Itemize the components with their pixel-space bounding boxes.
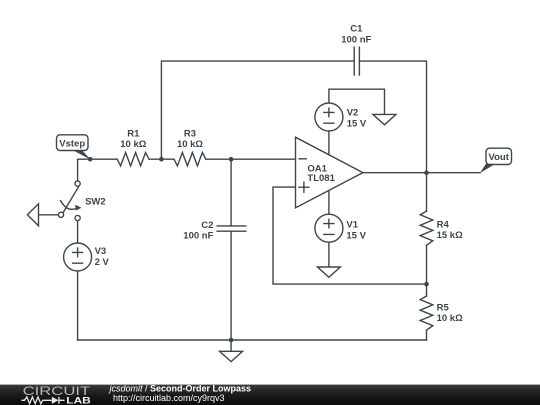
- node R1-R3 / C1 tap: [159, 157, 164, 162]
- svg-text:TL081: TL081: [307, 173, 335, 184]
- svg-text:2 V: 2 V: [95, 257, 110, 268]
- svg-text:http://circuitlab.com/cy9rqv3: http://circuitlab.com/cy9rqv3: [113, 393, 225, 403]
- ground near V2: [373, 114, 396, 124]
- node feedback divider: [424, 282, 429, 287]
- wire C2 bottom branch: [230, 231, 232, 340]
- source V3: [64, 243, 92, 271]
- wire R5 bottom to ground rail: [426, 330, 428, 340]
- wire V2 top loop to ground: [329, 89, 385, 114]
- ground left rotated: [27, 204, 38, 226]
- wire R1 to R3: [149, 158, 174, 160]
- svg-text:V1: V1: [346, 220, 358, 231]
- resistor R1: [117, 153, 149, 166]
- wire V3 bottom to rail: [77, 271, 79, 340]
- node ground rail: [229, 338, 234, 343]
- svg-text:C1: C1: [350, 23, 363, 34]
- svg-text:LAB: LAB: [66, 395, 91, 405]
- svg-text:15 V: 15 V: [347, 119, 367, 130]
- switch arrow head: [75, 205, 81, 211]
- svg-text:R3: R3: [184, 129, 196, 140]
- capacitor C1: [354, 47, 359, 75]
- svg-text:100 nF: 100 nF: [183, 230, 213, 241]
- wire C2 top branch: [230, 159, 232, 226]
- flag Vout: [480, 148, 512, 173]
- svg-text:15 kΩ: 15 kΩ: [437, 230, 463, 241]
- svg-text:C2: C2: [201, 220, 213, 231]
- ground bottom center: [230, 340, 232, 351]
- svg-text:R5: R5: [437, 303, 450, 314]
- svg-text:R1: R1: [127, 129, 140, 140]
- svg-text:Vstep: Vstep: [59, 138, 85, 149]
- node C2 tap: [229, 157, 234, 162]
- source V1: [315, 214, 343, 242]
- wire op-amp output to Vout: [363, 172, 480, 174]
- wire V2 bottom to op-amp: [328, 131, 330, 155]
- op-amp OA1: [296, 137, 363, 208]
- svg-text:SW2: SW2: [85, 197, 106, 208]
- wire R4 bottom to feedback node: [426, 245, 428, 296]
- flag Vstep: [57, 135, 91, 160]
- resistor R5: [420, 296, 433, 330]
- wire feedback from plus input down and across: [273, 187, 427, 284]
- logo CIRCUIT LAB: [22, 386, 91, 405]
- wire C1 top loop: [161, 61, 354, 159]
- capacitor C2: [217, 226, 246, 231]
- node Vstep tap: [88, 157, 93, 162]
- wire V1 bottom to ground: [328, 242, 330, 267]
- svg-text:V2: V2: [347, 108, 359, 119]
- node output: [424, 170, 429, 175]
- resistor R4: [420, 211, 433, 245]
- source V2: [315, 103, 343, 131]
- wire op-amp to V1 top: [328, 190, 330, 214]
- ground below V1: [317, 267, 340, 277]
- wire left ground to switch common: [39, 214, 59, 216]
- svg-text:10 kΩ: 10 kΩ: [177, 139, 203, 150]
- svg-text:100 nF: 100 nF: [341, 34, 371, 45]
- svg-text:10 kΩ: 10 kΩ: [437, 313, 463, 324]
- wire bottom ground rail: [78, 339, 427, 341]
- switch SW2: [63, 186, 79, 213]
- wire C1 right to right rail: [359, 61, 426, 211]
- resistor R3: [174, 153, 206, 166]
- junction node dots: [88, 157, 429, 342]
- svg-text:V3: V3: [95, 246, 107, 257]
- wire input corner (Vstep node to R1): [78, 159, 118, 181]
- svg-text:10 kΩ: 10 kΩ: [120, 139, 146, 150]
- wire R3 to op-amp minus input: [206, 158, 295, 160]
- svg-text:Vout: Vout: [488, 152, 509, 163]
- wire switch throw to V3 top: [77, 221, 79, 244]
- svg-text:15 V: 15 V: [346, 231, 366, 242]
